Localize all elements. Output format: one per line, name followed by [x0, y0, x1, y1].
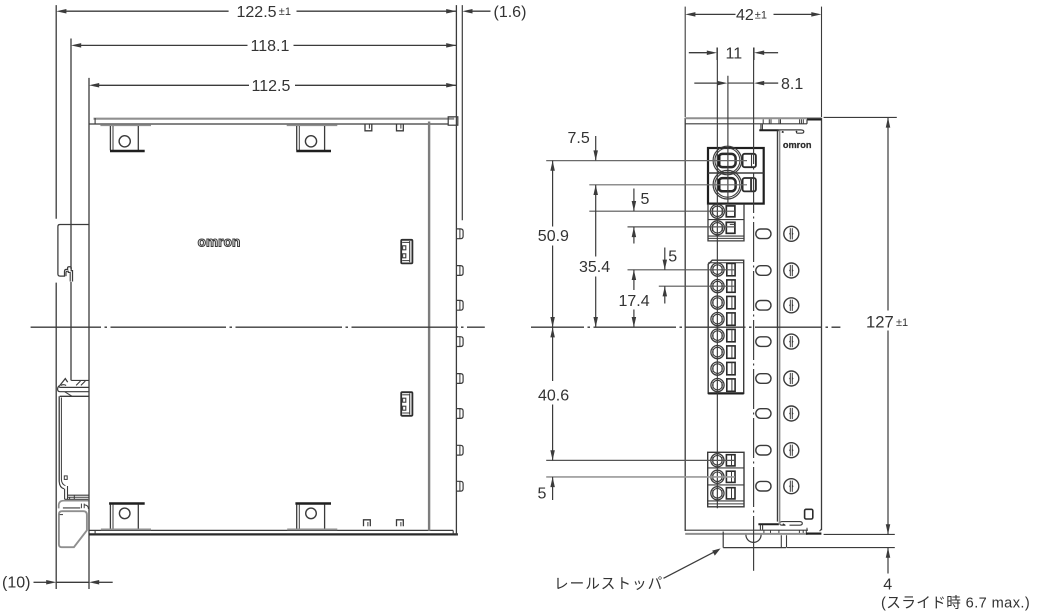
side view bottom mounting tab 2 [295, 502, 331, 504]
dimension 35.4 [595, 185, 597, 257]
leader line L6 [659, 285, 735, 287]
front view terminal block D [708, 452, 744, 507]
dimension 127±1 [824, 116, 897, 118]
svg-text:5: 5 [641, 191, 650, 208]
dimension 5 (upper) [633, 189, 635, 212]
leader line L3 [589, 210, 735, 212]
svg-text:42: 42 [736, 7, 754, 24]
side view bottom plate [89, 529, 453, 531]
side view bottom plate clip 2 [397, 520, 404, 527]
svg-text:112.5: 112.5 [252, 78, 291, 95]
front view small-screw centerline [716, 48, 718, 509]
front view terminal block B [708, 204, 744, 241]
dimension 118.1 [80, 44, 247, 46]
front view top face [685, 117, 821, 119]
side view bottom mounting tab 1 [109, 502, 145, 504]
dimension 17.4 [633, 270, 635, 290]
front view terminal block A (power screws) [708, 148, 764, 204]
front view right screw column [784, 226, 799, 241]
side view left extension line (122.5 ref / DIN clip edge) [55, 5, 57, 219]
front view big-screw centerline [727, 76, 729, 204]
front view top cover hinge [760, 124, 762, 130]
side view top plate clip 2 [397, 124, 404, 131]
svg-text:omron: omron [783, 140, 812, 150]
svg-text:(1.6): (1.6) [494, 4, 527, 21]
dimension 50.9 [552, 161, 554, 227]
front view hinge centerline [753, 48, 755, 125]
svg-text:122.5: 122.5 [237, 4, 277, 21]
svg-text:(10): (10) [2, 574, 30, 591]
svg-text:レールストッパ: レールストッパ [554, 576, 663, 593]
side view front bezel back line [428, 122, 430, 531]
front view terminal block C [708, 260, 744, 393]
svg-text:7.5: 7.5 [568, 130, 590, 147]
dimension 4 [787, 547, 895, 549]
svg-text:35.4: 35.4 [579, 259, 610, 276]
front view bottom face [685, 529, 808, 531]
front view louver ovals [756, 229, 771, 239]
side view body left edge (112.5 ref) [88, 78, 90, 589]
dimension (1.6) [462, 9, 472, 14]
leader line L7 [546, 459, 735, 461]
svg-text:±1: ±1 [896, 317, 908, 329]
svg-text:omron: omron [198, 235, 241, 250]
side view DIN rail body [58, 396, 60, 481]
dimension 122.5±1 [66, 10, 229, 12]
dimension 112.5 [98, 84, 249, 86]
side view top mounting tab 2 [287, 124, 338, 126]
svg-text:50.9: 50.9 [538, 228, 569, 245]
svg-text:118.1: 118.1 [251, 38, 290, 55]
leader line L1 [546, 160, 747, 162]
side view bottom plate clip 1 [364, 520, 371, 527]
leader line L2 [589, 184, 747, 186]
svg-text:(スライド時 6.7 max.): (スライド時 6.7 max.) [881, 595, 1030, 611]
side view top plate clip 1 [365, 124, 372, 131]
side view DIN clip spring [59, 501, 89, 509]
front view cover edge double line [776, 130, 778, 521]
front view rail stopper [722, 532, 724, 548]
svg-text:±1: ±1 [279, 6, 291, 18]
side view front face line [455, 5, 457, 535]
side view top plate [94, 118, 455, 120]
dimension 11 [689, 52, 708, 54]
dimension 40.6 [552, 327, 554, 381]
leader line L5 [628, 269, 736, 271]
dimension 5 (bottom) [552, 477, 554, 500]
leader line L8 [546, 476, 735, 478]
svg-text:127: 127 [866, 313, 894, 332]
side view connector 1 [401, 240, 412, 264]
front view left edge [684, 118, 686, 531]
svg-text:±1: ±1 [755, 10, 767, 22]
side view centerline [31, 326, 101, 328]
side view connector 2 [401, 392, 412, 416]
side view upper DIN clip [58, 225, 89, 282]
dimension 42±1 [684, 7, 686, 117]
svg-text:5: 5 [538, 485, 547, 502]
svg-text:8.1: 8.1 [781, 76, 803, 93]
dimension 8.1 [694, 82, 718, 84]
front view latch square [805, 509, 813, 519]
leader line L4 [628, 226, 735, 228]
side view terminal cover bumps [457, 229, 463, 239]
svg-text:4: 4 [883, 576, 892, 593]
side view top mounting tab 1 [100, 124, 151, 126]
front view right edge [821, 118, 823, 530]
side view DIN rail surface line (118.1 ref) [70, 39, 72, 270]
side view bezel lip line [461, 5, 463, 220]
front view horizontal centerline [531, 326, 584, 328]
side view DIN rail top hook [59, 379, 67, 386]
front view bottom cover hinge [758, 523, 779, 525]
svg-text:40.6: 40.6 [538, 388, 569, 405]
svg-text:5: 5 [668, 248, 677, 265]
svg-text:17.4: 17.4 [619, 293, 650, 310]
svg-text:11: 11 [726, 46, 743, 63]
dimension 5 (lower) [664, 248, 666, 270]
side view DIN clip foot [59, 511, 87, 547]
